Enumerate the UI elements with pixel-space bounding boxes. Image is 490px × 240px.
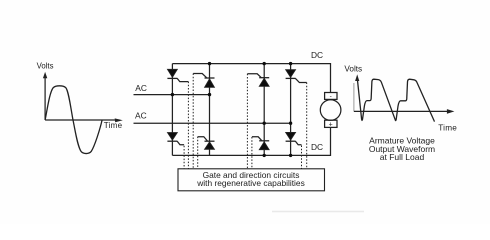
armature voltage waveform bbox=[357, 78, 434, 122]
svg-text:Time: Time bbox=[438, 124, 457, 133]
motor armature M1: brush box minus bbox=[325, 93, 337, 100]
wire: branch 1 vertical bbox=[171, 64, 173, 156]
gate dashed lead SCR1 bbox=[187, 82, 189, 169]
svg-text:DC: DC bbox=[311, 142, 323, 152]
thyristor SCR3 (branch2 top, up) bbox=[193, 74, 214, 88]
node: AC1 x branch1 bbox=[171, 93, 174, 96]
wire: top DC rail bbox=[172, 64, 330, 93]
motor armature M1: brush box plus bbox=[325, 120, 337, 127]
gate and direction circuits box bbox=[178, 169, 325, 191]
node: top rail x branch2 bbox=[208, 62, 211, 65]
thyristor SCR4 (branch2 bottom, up) bbox=[198, 137, 215, 150]
svg-text:DC: DC bbox=[311, 50, 323, 60]
node: AC2 x branch4 bbox=[289, 122, 292, 125]
svg-text:AC: AC bbox=[135, 111, 147, 121]
svg-text:Volts: Volts bbox=[344, 65, 362, 74]
node: top rail x branch3 bbox=[263, 62, 266, 65]
gate dashed lead SCR7 bbox=[306, 83, 308, 169]
left graph time axis bbox=[45, 118, 123, 122]
wire: AC line 2 bbox=[134, 122, 291, 124]
thyristor SCR7 (branch4 top, down) bbox=[286, 70, 307, 83]
gate dashed lead SCR8 bbox=[301, 146, 303, 169]
right graph time axis bbox=[354, 109, 455, 114]
wire: branch 2 vertical bbox=[209, 64, 211, 156]
wire: branch 4 vertical bbox=[290, 64, 292, 156]
gate dashed lead SCR4 bbox=[197, 137, 199, 169]
node: bottom rail x branch3 bbox=[263, 154, 266, 157]
node: AC1 x branch2 bbox=[208, 93, 211, 96]
thyristor SCR5 (branch3 top, up) bbox=[247, 74, 269, 87]
gate dashed lead SCR2 bbox=[183, 146, 185, 169]
gate dashed lead SCR6 bbox=[251, 137, 253, 169]
node: top rail x branch4 bbox=[289, 62, 292, 65]
wire: branch 3 vertical bbox=[263, 64, 265, 156]
right graph volts axis bbox=[354, 74, 359, 111]
svg-text:Volts: Volts bbox=[37, 62, 54, 71]
wire: bottom DC rail bbox=[172, 128, 330, 156]
node: bottom rail x branch4 bbox=[289, 154, 292, 157]
svg-text:AC: AC bbox=[135, 83, 147, 93]
svg-text:Time: Time bbox=[104, 121, 123, 130]
gate dashed lead SCR3 bbox=[192, 74, 194, 169]
wire: AC line 1 bbox=[134, 94, 210, 96]
svg-text:-: - bbox=[330, 93, 332, 100]
thyristor SCR1 (branch1 top, down) bbox=[167, 69, 188, 81]
thyristor SCR2 (branch1 bottom, down) bbox=[167, 133, 184, 145]
node: AC2 x branch3 bbox=[263, 122, 266, 125]
svg-text:+: + bbox=[329, 121, 333, 128]
left sine waveform bbox=[45, 86, 102, 154]
thyristor SCR8 (branch4 bottom, down) bbox=[286, 132, 302, 144]
left graph volts axis bbox=[43, 72, 47, 120]
motor armature M1: rotor circle bbox=[320, 100, 341, 121]
thyristor SCR6 (branch3 bottom, up) bbox=[252, 137, 269, 150]
scan artifact smudge bbox=[272, 211, 364, 213]
svg-text:with regenerative capabilities: with regenerative capabilities bbox=[196, 178, 305, 188]
svg-text:at Full Load: at Full Load bbox=[380, 152, 425, 162]
gate dashed lead SCR5 bbox=[246, 74, 248, 169]
